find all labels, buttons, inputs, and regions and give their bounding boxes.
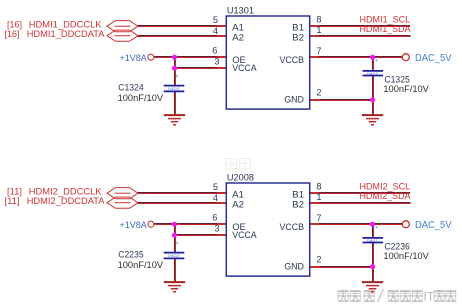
wire net HDMI1_DDCDATA to pin 4 xyxy=(137,36,226,37)
wire vertical +1V8A down to C2235 xyxy=(175,224,176,253)
svg-text:B2: B2 xyxy=(292,32,304,43)
capacitor C1324 100nF xyxy=(164,86,185,92)
pin stubs left of U1301 xyxy=(217,26,227,68)
svg-text:100nF/10V: 100nF/10V xyxy=(383,84,429,94)
wire junction to pin 3 (VCCA) xyxy=(175,68,227,69)
wire +1V8A to pin 6 (OE) xyxy=(154,57,226,58)
svg-text:U2008: U2008 xyxy=(227,173,254,184)
svg-text:3: 3 xyxy=(214,56,219,66)
junction node VCCA xyxy=(172,233,177,238)
svg-text:HDMI1_SDA: HDMI1_SDA xyxy=(360,24,412,35)
svg-text:HDMI2_SDA: HDMI2_SDA xyxy=(360,191,412,202)
svg-text:3: 3 xyxy=(214,223,219,233)
svg-text:6: 6 xyxy=(212,212,217,222)
svg-text:0402: 0402 xyxy=(168,254,180,258)
svg-text:GND: GND xyxy=(284,262,304,273)
wire C2236 bottom to GND net xyxy=(373,243,374,267)
svg-text:2: 2 xyxy=(316,255,321,265)
ground for C2236 xyxy=(362,282,383,292)
svg-text:0402: 0402 xyxy=(367,239,379,243)
ground for C1325 xyxy=(362,115,383,125)
wire vertical +1V8A down to C1324 xyxy=(175,57,176,86)
off-page connector HDMI1_DDCCLK xyxy=(107,21,138,32)
wire C1324 to ground xyxy=(175,91,176,115)
wire GND net down to ground symbol xyxy=(373,100,374,115)
ground for C1324 xyxy=(164,115,185,125)
svg-text:*: * xyxy=(176,242,179,249)
capacitor C2235 100nF xyxy=(164,253,185,259)
svg-text:VCCB: VCCB xyxy=(280,55,305,66)
capacitor C1325 100nF xyxy=(363,71,384,76)
wire C1325 bottom to GND net xyxy=(373,76,374,100)
svg-text:HDMI2_DDCDATA: HDMI2_DDCDATA xyxy=(27,196,105,207)
wire vertical DAC_5V down to C1325 xyxy=(373,57,374,71)
svg-text:A2: A2 xyxy=(232,199,244,210)
svg-text:6: 6 xyxy=(212,45,217,55)
ground for C2235 xyxy=(164,282,185,292)
svg-text:5: 5 xyxy=(213,15,218,25)
svg-text:8: 8 xyxy=(316,182,321,192)
svg-text:+1V8A: +1V8A xyxy=(120,220,148,231)
svg-text:GND: GND xyxy=(284,95,304,106)
off-page connector HDMI2_DDCCLK xyxy=(107,188,138,199)
wire junction to pin 3 (VCCA) xyxy=(175,235,227,236)
wire pin 8 (B1) to HDMI1_SCL xyxy=(310,26,410,27)
IC body U1301 (level shifter) xyxy=(226,16,309,109)
junction node GND net xyxy=(370,97,375,102)
svg-text:2: 2 xyxy=(316,88,321,98)
svg-text:VCCA: VCCA xyxy=(232,230,257,241)
svg-text:DAC_5V: DAC_5V xyxy=(415,220,452,231)
wire pin 7 (VCCB) to DAC_5V xyxy=(310,57,403,58)
svg-text:8: 8 xyxy=(316,15,321,25)
svg-text:C1325: C1325 xyxy=(384,74,409,84)
svg-text:7: 7 xyxy=(316,46,321,56)
svg-text:[11]: [11] xyxy=(5,196,20,207)
faint watermark smudge above U2008 xyxy=(226,159,251,170)
svg-text:IT: IT xyxy=(424,290,435,304)
wire net HDMI2_DDCDATA to pin 4 xyxy=(137,203,226,204)
svg-text:5: 5 xyxy=(213,182,218,192)
wire pin 8 (B1) to HDMI2_SCL xyxy=(310,193,410,194)
watermark gray text bottom right xyxy=(338,289,424,302)
wire vertical DAC_5V down to C2236 xyxy=(373,224,374,238)
svg-text:B2: B2 xyxy=(292,199,304,210)
pin stubs right of U2008 xyxy=(309,193,319,224)
pin stubs right of U1301 xyxy=(309,26,319,57)
svg-text:*: * xyxy=(375,59,378,66)
svg-text:A2: A2 xyxy=(232,32,244,43)
off-page connector HDMI2_DDCDATA xyxy=(107,197,138,208)
pin stubs left of U2008 xyxy=(217,193,227,235)
svg-text:C1324: C1324 xyxy=(118,83,143,93)
power port circle DAC_5V xyxy=(402,54,409,61)
wire GND net down to ground symbol xyxy=(373,267,374,282)
svg-text:VCCB: VCCB xyxy=(280,222,305,233)
svg-text:*: * xyxy=(375,226,378,233)
power port circle +1V8A xyxy=(148,54,154,60)
svg-text:[16]: [16] xyxy=(5,29,20,40)
svg-text:HDMI1_DDCDATA: HDMI1_DDCDATA xyxy=(27,29,105,40)
wire pin 1 (B2) to HDMI2_SDA xyxy=(310,203,411,204)
svg-text:C2236: C2236 xyxy=(384,241,409,251)
svg-text:4: 4 xyxy=(213,193,218,203)
svg-text:0402: 0402 xyxy=(367,72,379,76)
wire pin 7 (VCCB) to DAC_5V xyxy=(310,224,403,225)
svg-text:U1301: U1301 xyxy=(227,6,254,17)
junction node VCCB/DAC_5V xyxy=(370,55,375,60)
svg-text:7: 7 xyxy=(316,213,321,223)
junction node OE/+1V8A xyxy=(172,222,177,227)
svg-text:1: 1 xyxy=(316,25,321,35)
IC body U2008 (level shifter) xyxy=(226,183,309,276)
svg-text:DAC_5V: DAC_5V xyxy=(415,53,452,64)
junction node GND net xyxy=(370,264,375,269)
wire C2235 to ground xyxy=(175,258,176,282)
svg-text:*: * xyxy=(176,75,179,82)
wire net HDMI2_DDCCLK to pin 5 xyxy=(137,193,226,194)
svg-text:4: 4 xyxy=(213,26,218,36)
power port circle +1V8A xyxy=(148,221,154,227)
svg-text:0402: 0402 xyxy=(168,87,180,91)
svg-text:100nF/10V: 100nF/10V xyxy=(118,260,164,270)
junction node VCCA xyxy=(172,66,177,71)
power port circle DAC_5V xyxy=(402,221,409,228)
wire pin 1 (B2) to HDMI1_SDA xyxy=(310,36,411,37)
wire +1V8A to pin 6 (OE) xyxy=(154,224,226,225)
wire pin 2 (GND) xyxy=(310,100,373,101)
svg-text:+1V8A: +1V8A xyxy=(120,53,148,64)
off-page connector HDMI1_DDCDATA xyxy=(107,30,138,41)
svg-text:100nF/10V: 100nF/10V xyxy=(383,251,429,261)
svg-text:C2235: C2235 xyxy=(118,250,143,260)
junction node OE/+1V8A xyxy=(172,55,177,60)
junction node VCCB/DAC_5V xyxy=(370,222,375,227)
svg-text:1: 1 xyxy=(316,192,321,202)
wire pin 2 (GND) xyxy=(310,267,373,268)
wire net HDMI1_DDCCLK to pin 5 xyxy=(137,26,226,27)
capacitor C2236 100nF xyxy=(363,238,384,243)
svg-text:100nF/10V: 100nF/10V xyxy=(118,93,164,103)
svg-text:VCCA: VCCA xyxy=(232,63,257,74)
